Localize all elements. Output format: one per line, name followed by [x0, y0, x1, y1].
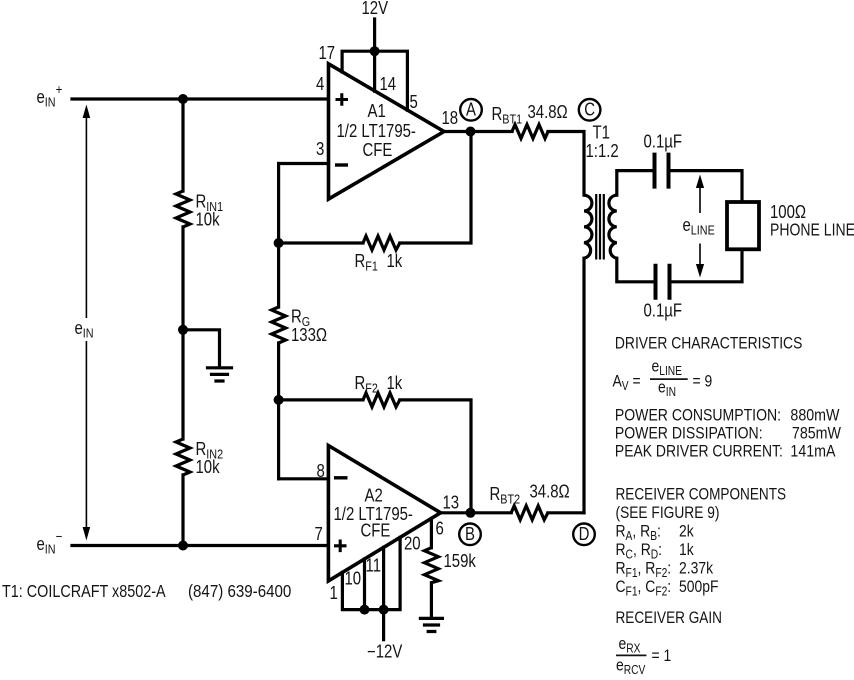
resistor R_BT2	[511, 506, 548, 520]
svg-text:11: 11	[366, 555, 382, 576]
node C circled	[579, 99, 601, 121]
svg-text:8: 8	[317, 461, 325, 482]
transformer secondary winding	[609, 195, 617, 258]
wire secondary top	[617, 171, 655, 196]
wire e_IN+ horizontal	[72, 97, 330, 100]
node junction to ground	[178, 325, 188, 335]
svg-text:2k: 2k	[679, 522, 694, 541]
resistor R_F1	[363, 236, 400, 250]
svg-text:D: D	[579, 524, 590, 545]
wire pins 1,10,11,20 to bus	[342, 537, 400, 609]
node junction R_F1	[274, 238, 284, 248]
svg-text:= 9: = 9	[693, 372, 713, 391]
op-amp U2 A2	[328, 446, 440, 581]
svg-text:1/2 LT1795-: 1/2 LT1795-	[337, 121, 416, 142]
transformer T1 primary winding	[584, 195, 592, 258]
node A circled	[460, 99, 482, 121]
svg-text:10k: 10k	[196, 457, 221, 478]
svg-text:12V: 12V	[362, 0, 389, 18]
svg-text:34.8Ω: 34.8Ω	[530, 481, 570, 502]
wire cap to load top	[669, 171, 743, 202]
svg-text:10k: 10k	[196, 209, 221, 230]
svg-text:0.1µF: 0.1µF	[644, 300, 682, 321]
svg-text:17: 17	[319, 43, 336, 64]
node junction e_IN- / R_IN2	[178, 541, 188, 551]
node 12V junction	[370, 46, 380, 56]
capacitor C top 0.1uF	[655, 153, 669, 189]
svg-text:C: C	[584, 99, 595, 120]
svg-text:1:1.2: 1:1.2	[586, 141, 619, 162]
op-amp U1 A1	[329, 64, 445, 199]
node D circled	[573, 524, 595, 546]
svg-text:RECEIVER COMPONENTS: RECEIVER COMPONENTS	[616, 485, 787, 504]
resistor R_IN2	[176, 439, 190, 475]
svg-text:= 1: = 1	[652, 647, 672, 666]
wire load bottom	[670, 249, 743, 281]
svg-text:T1: COILCRAFT x8502-A: T1: COILCRAFT x8502-A	[2, 582, 166, 602]
wire pin 8 input	[279, 477, 329, 480]
svg-text:B: B	[465, 524, 475, 545]
wire e_IN- horizontal	[72, 544, 330, 547]
ground A2	[420, 618, 442, 631]
resistor R_IN1	[176, 191, 190, 227]
ground	[208, 368, 232, 381]
node junction R_F2	[274, 395, 284, 405]
svg-text:POWER DISSIPATION:: POWER DISSIPATION:	[615, 424, 763, 443]
svg-text:133Ω: 133Ω	[291, 325, 327, 346]
svg-text:1k: 1k	[679, 541, 694, 560]
svg-text:7: 7	[315, 524, 323, 545]
load resistor 100 ohm phone line	[727, 202, 759, 249]
wire 12V vertical + pin14	[373, 19, 376, 91]
resistor R_BT1	[512, 125, 548, 139]
svg-text:2.37k: 2.37k	[679, 559, 713, 578]
node junction A1 output	[466, 127, 476, 137]
svg-text:159k: 159k	[444, 551, 477, 572]
wire pin 6	[430, 518, 433, 547]
svg-text:880mW: 880mW	[790, 407, 839, 425]
svg-text:PHONE LINE: PHONE LINE	[770, 220, 854, 240]
node junction bus 2	[379, 605, 389, 615]
svg-text:1k: 1k	[387, 251, 403, 272]
transformer core	[596, 194, 604, 260]
wire input divider vertical	[181, 99, 184, 546]
node B circled	[459, 524, 481, 546]
wire 159k to ground	[430, 583, 433, 617]
wire A2 output	[441, 511, 512, 514]
node junction A2 output	[466, 508, 476, 518]
svg-text:34.8Ω: 34.8Ω	[528, 102, 568, 123]
svg-text:CFE: CFE	[361, 520, 391, 541]
svg-text:785mW: 785mW	[792, 425, 841, 443]
svg-text:4: 4	[316, 74, 324, 95]
svg-text:A1: A1	[368, 101, 386, 122]
svg-text:A: A	[466, 99, 476, 120]
wire pin 3 input	[279, 162, 329, 165]
svg-text:(SEE FIGURE 9): (SEE FIGURE 9)	[616, 504, 720, 523]
wire inverting node vertical	[277, 164, 280, 479]
svg-text:20: 20	[404, 533, 421, 554]
wire R_F2 feedback	[279, 400, 471, 513]
wire R_BT2 to transformer	[548, 511, 584, 514]
svg-text:DRIVER CHARACTERISTICS: DRIVER CHARACTERISTICS	[615, 334, 802, 353]
wire secondary bottom	[617, 258, 656, 282]
wire to ground stub	[183, 330, 220, 366]
svg-text:1: 1	[330, 583, 338, 604]
wire primary bottom vertical	[582, 258, 585, 513]
node junction e_IN+ / R_IN1	[178, 94, 188, 104]
wire supply rail pins 17,5	[342, 51, 407, 110]
svg-text:(847) 639-6400: (847) 639-6400	[188, 581, 291, 602]
wire to -12V	[382, 610, 385, 640]
svg-text:6: 6	[436, 518, 444, 539]
svg-text:5: 5	[410, 92, 418, 113]
svg-text:CFE: CFE	[363, 140, 393, 161]
svg-text:3: 3	[316, 139, 324, 160]
svg-text:13: 13	[443, 492, 460, 513]
wire A1 output	[444, 130, 512, 133]
capacitor C bottom 0.1uF	[656, 264, 670, 300]
resistor R_G	[272, 307, 286, 343]
svg-text:POWER CONSUMPTION:: POWER CONSUMPTION:	[615, 407, 781, 426]
svg-text:−12V: −12V	[367, 641, 402, 662]
resistor 159k	[424, 548, 438, 583]
svg-text:0.1µF: 0.1µF	[644, 131, 682, 152]
svg-text:10: 10	[345, 568, 362, 589]
svg-text:141mA: 141mA	[790, 442, 836, 460]
svg-text:1k: 1k	[387, 373, 403, 394]
svg-text:14: 14	[380, 74, 397, 95]
e_IN measurement arrow	[85, 112, 87, 532]
wire R_BT1 to transformer	[548, 132, 584, 196]
e_LINE arrow	[699, 182, 701, 270]
resistor R_F2	[363, 393, 400, 407]
svg-text:RECEIVER GAIN: RECEIVER GAIN	[616, 609, 722, 628]
node junction bus 1	[360, 605, 370, 615]
wire R_F1 feedback	[279, 132, 471, 244]
svg-text:PEAK DRIVER CURRENT:: PEAK DRIVER CURRENT:	[615, 442, 783, 461]
svg-text:500pF: 500pF	[679, 578, 718, 597]
svg-text:18: 18	[442, 108, 459, 129]
